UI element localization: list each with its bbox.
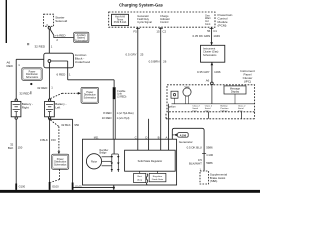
svg-text:Generator: Generator xyxy=(179,140,193,144)
IPC message display box xyxy=(224,86,246,104)
svg-text:PCM B 10A: PCM B 10A xyxy=(114,21,127,24)
stray mark xyxy=(27,43,29,45)
field coil squiggle xyxy=(146,174,148,185)
svg-text:B: B xyxy=(158,135,160,139)
instrument cluster schematics ref box xyxy=(201,45,225,62)
svg-text:Control: Control xyxy=(160,20,169,24)
pin F5 xyxy=(133,28,140,33)
wire 32 BLK under battery right xyxy=(8,119,23,183)
svg-text:32 RED: 32 RED xyxy=(37,86,47,90)
label 0.5 DK BLU 5986 xyxy=(187,145,213,149)
svg-text:Cont: Cont xyxy=(205,23,211,26)
wire D from lower dashed to generator xyxy=(148,119,150,150)
wire A from IPC to generator xyxy=(168,112,170,150)
off-page arrow box xyxy=(172,133,188,138)
wire junction to battery left xyxy=(48,62,50,99)
svg-text:0 BLK: 0 BLK xyxy=(40,138,48,142)
wire 32 RED solenoid to junction block xyxy=(34,29,52,53)
dashed wire battery left top to PDS2 xyxy=(50,92,81,99)
svg-text:G100: G100 xyxy=(52,184,59,188)
IPC label xyxy=(240,69,255,84)
svg-text:Solid State Regulator: Solid State Regulator xyxy=(138,159,163,163)
svg-text:F5: F5 xyxy=(133,29,137,33)
pin 15 C2 xyxy=(156,28,166,33)
ground G100 right battery xyxy=(15,184,25,190)
wire 0.35 DK GRN 1049 PCM 56 down xyxy=(193,27,221,45)
IPC ignition switch symbol xyxy=(171,91,178,104)
auxiliary battery schematics ref box xyxy=(74,32,89,42)
svg-text:Solenoid: Solenoid xyxy=(55,19,67,23)
rect assy box xyxy=(134,171,146,182)
wire 6 RED junction block right exit xyxy=(51,61,114,87)
IPC internal stub from A6 xyxy=(211,85,213,104)
wire +b RED to aux battery xyxy=(50,29,74,42)
svg-text:Rotor: Rotor xyxy=(91,160,97,163)
svg-text:0.35 GRY: 0.35 GRY xyxy=(197,70,210,74)
IPC bus line xyxy=(172,103,255,105)
svg-text:Data: Data xyxy=(205,109,210,112)
svg-text:Schematics: Schematics xyxy=(203,53,217,57)
lower dashed line xyxy=(166,112,255,119)
IPC stub ignition xyxy=(168,104,170,112)
svg-text:15: 15 xyxy=(156,29,160,33)
svg-text:(3 RED): (3 RED) xyxy=(117,95,126,98)
svg-text:Data: Data xyxy=(192,109,197,112)
battery right xyxy=(11,99,33,119)
wire 0.5 GRY 25 PCM F5 to generator C xyxy=(126,27,144,150)
PCM generator field duty cycle signal label xyxy=(137,14,152,24)
wire 0.5 BRN 26 PCM 15 to generator B xyxy=(149,27,167,150)
ground bus bar xyxy=(0,190,260,193)
svg-text:150: 150 xyxy=(18,145,23,149)
svg-text:Underhood: Underhood xyxy=(75,60,91,64)
label 0.5 BLK/WHT 5986 xyxy=(189,158,213,165)
svg-text:RED: RED xyxy=(7,64,14,68)
junction block - underhood xyxy=(44,53,91,68)
svg-text:+b RED: +b RED xyxy=(55,33,66,37)
SBA dashed box xyxy=(200,171,227,184)
rotor xyxy=(86,154,101,169)
svg-text:5986: 5986 xyxy=(206,145,213,149)
svg-text:Regulator: Regulator xyxy=(153,175,163,178)
pin 56 C1 xyxy=(207,28,217,32)
B+ internal stub xyxy=(113,139,115,154)
svg-text:Cycle Signal: Cycle Signal xyxy=(137,20,152,24)
diode bridge xyxy=(111,154,120,172)
IPC stubs to lower dashed xyxy=(208,112,210,119)
svg-text:(IPC): (IPC) xyxy=(244,80,251,84)
svg-text:Rect: Rect xyxy=(137,175,142,178)
svg-text:C2: C2 xyxy=(162,29,166,33)
svg-text:10 RED: 10 RED xyxy=(102,116,112,120)
power distribution schematics ref 2 xyxy=(81,87,99,103)
svg-text:1 (w/o Hyd): 1 (w/o Hyd) xyxy=(117,117,130,120)
dashed wire battery left bottom to PDS3 xyxy=(50,120,60,154)
svg-text:0.5 DK BLU: 0.5 DK BLU xyxy=(187,145,202,149)
svg-text:Display: Display xyxy=(231,90,240,93)
L wire generator to SBA xyxy=(172,128,204,171)
svg-text:G100: G100 xyxy=(19,184,26,188)
svg-text:A106: A106 xyxy=(180,133,187,137)
ground G100 left battery xyxy=(49,182,59,190)
starter solenoid (dashed) xyxy=(44,14,68,27)
svg-text:(PCM): (PCM) xyxy=(218,24,227,28)
IPC volts gauge xyxy=(183,86,191,104)
PCM charge indicator label xyxy=(160,14,170,24)
svg-text:32 RED: 32 RED xyxy=(34,44,45,48)
label 32 RED left xyxy=(19,91,31,95)
svg-text:26: 26 xyxy=(163,60,167,64)
svg-text:0.5 BRN: 0.5 BRN xyxy=(149,60,160,64)
svg-text:(SBA): (SBA) xyxy=(210,179,218,183)
svg-text:0.35 DK GRN: 0.35 DK GRN xyxy=(193,34,211,38)
svg-text:M31: M31 xyxy=(94,136,99,139)
svg-text:Data: Data xyxy=(238,109,243,112)
label 32 RED on battery-left feed xyxy=(37,86,53,91)
svg-text:Bridge: Bridge xyxy=(100,152,108,155)
svg-text:Ignition: Ignition xyxy=(168,106,176,109)
wire 0 BLK under battery left xyxy=(40,119,56,182)
svg-text:Voltage: Voltage xyxy=(221,109,229,112)
battery left xyxy=(45,99,67,119)
svg-text:Schematics: Schematics xyxy=(75,39,88,42)
PCM gen warn label xyxy=(205,14,211,25)
wire junction block left exit A6 RED xyxy=(7,59,44,99)
generator box xyxy=(83,139,177,185)
svg-text:BLK: BLK xyxy=(8,146,14,150)
fusible link xyxy=(113,87,127,99)
ground jog to generator xyxy=(74,185,115,191)
rectifier bridge label xyxy=(100,149,109,155)
svg-text:32 RED: 32 RED xyxy=(19,92,29,96)
svg-text:1 (w/ Hyd-Max): 1 (w/ Hyd-Max) xyxy=(117,112,134,115)
svg-text:C100: C100 xyxy=(206,153,213,157)
wire B+ cable to generator xyxy=(102,99,134,139)
svg-text:1036: 1036 xyxy=(214,70,221,74)
svg-text:D: D xyxy=(145,135,147,139)
power distribution schematics ref 1 xyxy=(22,68,42,81)
svg-text:950: 950 xyxy=(74,123,79,127)
IPC dashed box xyxy=(167,85,255,112)
IPC labels row xyxy=(168,105,246,113)
power distribution schematics ref 3 xyxy=(52,154,69,169)
PCM label xyxy=(218,13,233,28)
svg-text:Charging System-Gas: Charging System-Gas xyxy=(119,2,163,7)
svg-text:C: C xyxy=(135,135,137,139)
svg-text:Schematics: Schematics xyxy=(26,76,39,79)
svg-text:25: 25 xyxy=(140,53,144,57)
svg-text:8 RED: 8 RED xyxy=(103,111,111,115)
splice dot battery left bottom xyxy=(49,118,51,120)
rotor to bridge wires xyxy=(102,157,112,166)
svg-text:150: 150 xyxy=(51,138,56,142)
dashed wire PDS3 to ground xyxy=(51,169,60,182)
solid state regulator box xyxy=(125,150,176,171)
node in junction block xyxy=(48,60,51,63)
PCM dashed box xyxy=(109,12,215,27)
svg-text:Left: Left xyxy=(55,106,60,110)
svg-text:Schematics: Schematics xyxy=(54,163,67,166)
svg-text:BLK/WHT: BLK/WHT xyxy=(189,161,202,165)
svg-text:Right: Right xyxy=(22,106,29,110)
svg-text:Schematics: Schematics xyxy=(84,96,97,99)
svg-text:6 RED: 6 RED xyxy=(56,73,66,77)
svg-text:1049: 1049 xyxy=(213,34,220,38)
wire 32 BLK 950 xyxy=(50,119,79,182)
wire 0.35 GRY 1036 to IPC A6 xyxy=(197,62,221,82)
terminal letters C D B A xyxy=(135,135,168,139)
splice dot xyxy=(30,83,32,85)
border artifact left edge xyxy=(6,0,7,43)
regulator diode state box xyxy=(149,171,166,182)
svg-text:32 BLK: 32 BLK xyxy=(61,123,71,127)
svg-text:A: A xyxy=(166,135,168,139)
svg-text:A6: A6 xyxy=(206,78,210,82)
svg-text:56: 56 xyxy=(207,29,211,33)
svg-text:C1: C1 xyxy=(213,29,217,33)
ground G105 xyxy=(72,183,82,190)
connector C100 xyxy=(202,153,213,157)
PCM fuse box xyxy=(112,14,129,25)
pin circle A6 xyxy=(211,82,214,85)
solenoid terminal xyxy=(48,27,50,29)
svg-text:5986: 5986 xyxy=(206,161,213,165)
svg-text:Diode State: Diode State xyxy=(152,178,164,181)
svg-text:0.5 GRY: 0.5 GRY xyxy=(126,53,137,57)
